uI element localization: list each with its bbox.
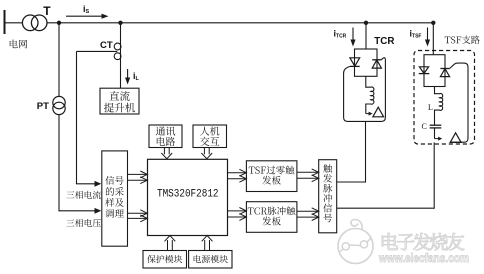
- TCR gate loop: [344, 58, 386, 122]
- label 号: [323, 214, 332, 223]
- bus wire (top): [47, 22, 433, 24]
- watermark 电子发烧友: [382, 233, 465, 251]
- label 冲: [323, 194, 332, 203]
- arrows TCR board to pulse box: [297, 210, 319, 212]
- label 电路: [157, 137, 175, 146]
- wire pulse box to TSF branch: [337, 207, 435, 209]
- current iL arrow: [127, 69, 129, 79]
- label 信号: [105, 176, 123, 185]
- svg-text:PT: PT: [37, 101, 49, 112]
- block 通讯电路: [149, 125, 182, 148]
- svg-text:TCR: TCR: [374, 36, 394, 47]
- block 电源模块: [189, 251, 232, 269]
- arrows sampling to DSP (lower): [128, 212, 148, 214]
- wire: CT sense horizontal: [77, 50, 118, 52]
- watermark logo circle: [338, 229, 373, 264]
- TSF dashed enclosure: [414, 51, 475, 145]
- label 电网: [10, 40, 27, 49]
- transformer T secondary winding: [31, 15, 47, 31]
- svg-text:TMS320F2812: TMS320F2812: [157, 189, 219, 201]
- svg-text:www.elecfans.com: www.elecfans.com: [378, 251, 469, 265]
- arrows TSF board to pulse box: [297, 171, 319, 173]
- current iTSF arrow: [427, 28, 429, 41]
- TSF delta symbol: [450, 133, 461, 143]
- block TCR脉冲触发板: [246, 202, 297, 233]
- label 脉: [323, 184, 332, 193]
- block 直流提升机: [100, 88, 139, 114]
- grid terminal bar: [4, 10, 6, 34]
- watermark logo nodes: [342, 243, 349, 250]
- TSF thyristor valve box: [424, 55, 445, 87]
- transformer T primary winding: [22, 15, 38, 31]
- TSF delta arrow: [435, 138, 439, 140]
- block 保护模块: [143, 251, 187, 269]
- label 三相电流: [66, 191, 101, 199]
- current iTCR arrow: [352, 28, 354, 41]
- label TCR脉冲触: [248, 206, 296, 215]
- label 发板 (TCR board): [262, 217, 280, 226]
- TCR delta symbol: [373, 107, 384, 117]
- label TSF过零触: [249, 166, 295, 175]
- arrow power to DSP: [204, 240, 206, 251]
- thyristor V1 (TCR left): [350, 58, 360, 66]
- svg-text:L: L: [428, 103, 433, 112]
- label 交互: [200, 137, 219, 146]
- block TSF过零触发板: [246, 161, 297, 192]
- arrow into sampling box (current): [95, 181, 102, 187]
- block TMS320F2812: [148, 159, 228, 235]
- label 提升机: [104, 103, 135, 113]
- TCR thyristor valve box: [355, 49, 378, 76]
- label 电源模块: [194, 255, 228, 263]
- arrows DSP to TSF board: [228, 172, 247, 174]
- node: bus junction TCR: [364, 21, 368, 25]
- node: bus junction TSF: [431, 21, 435, 25]
- PT winding 2: [53, 102, 65, 114]
- TSF filter reactor L: [435, 87, 443, 125]
- label 发: [323, 174, 332, 183]
- label 保护模块: [147, 255, 182, 263]
- wire: CT sense to current input: [76, 51, 78, 183]
- label 直流: [109, 91, 129, 101]
- wire: PT down to voltage input: [58, 114, 60, 210]
- CT winding 1: [114, 43, 121, 50]
- wire bus to TCR valve box: [365, 23, 367, 49]
- wire: junction2 down through CT: [120, 23, 122, 88]
- thyristor V2 (TCR right): [372, 60, 381, 68]
- TCR reactor (coil): [366, 76, 374, 113]
- wire pulse box to TCR branch: [337, 181, 366, 183]
- node: bus junction 2: [118, 21, 122, 25]
- block 人机交互: [193, 125, 227, 148]
- svg-text:C: C: [422, 122, 427, 131]
- arrow comm to DSP: [163, 148, 165, 155]
- current is arrow: [66, 15, 103, 17]
- label 调理: [105, 209, 124, 218]
- TSF filter capacitor C: [430, 124, 442, 126]
- wire bus to TSF valve box: [432, 23, 434, 55]
- thyristor V4 (TSF right): [440, 69, 449, 77]
- CT winding 2: [114, 53, 121, 60]
- wire: terminal to transformer: [5, 22, 23, 24]
- label 通讯: [156, 126, 175, 135]
- TSF gate wire (right): [450, 63, 468, 142]
- PT winding 1: [53, 96, 65, 108]
- label 样及: [105, 198, 124, 207]
- label 三相电压: [66, 219, 101, 227]
- thyristor V3 (TSF left): [419, 67, 428, 74]
- label TSF支路: [445, 35, 480, 43]
- label 触: [323, 164, 332, 173]
- arrow protection to DSP: [167, 240, 169, 251]
- label 人机: [200, 126, 219, 135]
- svg-text:T: T: [43, 4, 51, 18]
- arrows sampling to DSP (upper): [128, 173, 148, 175]
- label 的采: [106, 187, 124, 196]
- arrows DSP to TCR board: [228, 210, 247, 212]
- label 信: [323, 204, 332, 213]
- label 发板: [262, 176, 280, 185]
- wire: junction1 down to PT: [58, 23, 60, 97]
- watermark logo tail: [351, 220, 362, 231]
- arrow into sampling box (voltage): [95, 208, 102, 214]
- block 信号的采样及调理: [102, 151, 128, 246]
- TCR delta arrow: [366, 113, 369, 115]
- wire below capacitor: [434, 128, 436, 139]
- svg-text:CT: CT: [100, 40, 113, 51]
- arrow HMI to DSP: [203, 148, 205, 155]
- node: bus junction 1: [57, 21, 61, 25]
- block 触发脉冲信号: [319, 160, 337, 233]
